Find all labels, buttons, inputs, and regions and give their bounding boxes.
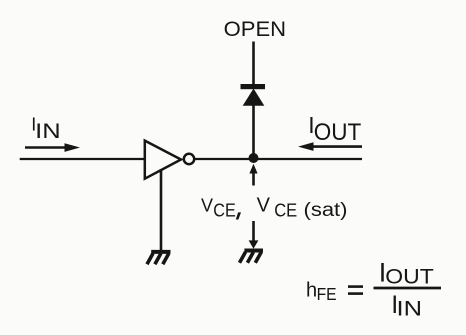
voltage arrow down (measurement, points to ground) — [249, 221, 259, 249]
formula h_FE = I_OUT / I_IN — [306, 257, 441, 320]
voltage arrow up (measurement, points to node) — [249, 164, 257, 186]
wire (inverter emitter to ground) — [160, 169, 163, 251]
wire (open collector pull-up stub) — [252, 42, 255, 86]
svg-text:IN: IN — [397, 298, 423, 321]
node (output junction) — [249, 153, 259, 163]
svg-text:OPEN: OPEN — [224, 17, 287, 41]
svg-text:VCE: VCE — [201, 196, 236, 221]
current arrow I_OUT — [298, 142, 362, 151]
svg-text:IIN: IIN — [31, 114, 61, 143]
wire (input) — [20, 158, 145, 160]
svg-text:hFE: hFE — [306, 280, 337, 304]
ground (inverter emitter) — [147, 252, 171, 264]
svg-text:VCE(sat): VCE(sat) — [257, 195, 348, 221]
ground (measurement reference) — [240, 251, 264, 263]
diode (cathode bar + anode triangle, pointing up) — [241, 84, 266, 106]
wire (output) — [195, 158, 362, 160]
current arrow I_IN — [25, 143, 80, 152]
wire (diode anode to node) — [252, 105, 255, 158]
inverter U1 (open-collector buffer triangle) — [145, 141, 194, 179]
svg-text:IOUT: IOUT — [308, 112, 361, 146]
svg-text:OUT: OUT — [385, 265, 434, 289]
